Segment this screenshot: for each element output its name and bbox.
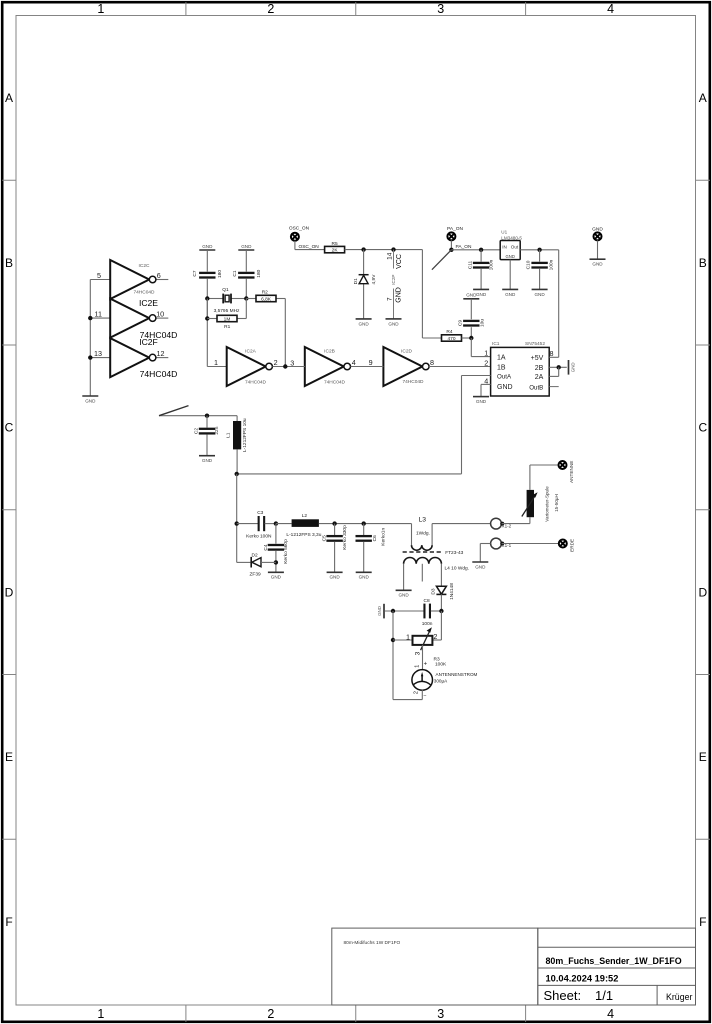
svg-text:3: 3 xyxy=(290,358,294,367)
svg-text:74HC04D: 74HC04D xyxy=(324,380,346,386)
svg-text:80m-Midifuchs 1W DF1FO: 80m-Midifuchs 1W DF1FO xyxy=(344,940,401,946)
svg-text:GND: GND xyxy=(592,262,603,267)
svg-text:1M: 1M xyxy=(224,316,231,322)
svg-text:IC2E: IC2E xyxy=(139,298,158,308)
svg-text:B: B xyxy=(5,256,13,270)
svg-text:OSC_ON: OSC_ON xyxy=(299,244,320,250)
svg-text:GND: GND xyxy=(506,254,515,259)
svg-text:14: 14 xyxy=(387,252,394,260)
svg-text:1N4148: 1N4148 xyxy=(449,583,455,600)
svg-text:VCC: VCC xyxy=(396,254,403,269)
svg-text:C11: C11 xyxy=(468,260,474,269)
svg-text:74HC04D: 74HC04D xyxy=(140,369,178,379)
svg-text:R4: R4 xyxy=(446,329,452,335)
svg-text:1B: 1B xyxy=(497,364,506,371)
svg-text:GND: GND xyxy=(398,593,409,598)
svg-text:GND: GND xyxy=(570,362,575,372)
svg-text:74HC04D: 74HC04D xyxy=(133,289,155,295)
svg-text:IN: IN xyxy=(502,244,507,249)
svg-text:+5V: +5V xyxy=(531,355,544,362)
svg-text:180: 180 xyxy=(217,270,223,278)
svg-text:1Wdg.: 1Wdg. xyxy=(416,531,430,537)
svg-text:L1: L1 xyxy=(226,432,232,438)
svg-text:L-1212FPS 10u: L-1212FPS 10u xyxy=(242,418,248,452)
svg-text:GND: GND xyxy=(534,292,545,297)
svg-text:ZF39: ZF39 xyxy=(249,571,261,577)
svg-text:80m_Fuchs_Sender_1W_DF1FO: 80m_Fuchs_Sender_1W_DF1FO xyxy=(546,956,682,966)
svg-text:470: 470 xyxy=(447,336,455,342)
svg-text:Out: Out xyxy=(511,244,519,249)
svg-text:PA_ON: PA_ON xyxy=(456,244,472,250)
svg-text:L-1212FPS 3,3u: L-1212FPS 3,3u xyxy=(286,532,321,538)
svg-text:GND: GND xyxy=(497,384,513,391)
svg-text:−: − xyxy=(423,693,426,699)
svg-text:GND: GND xyxy=(476,292,487,297)
svg-text:GND: GND xyxy=(388,321,399,326)
svg-text:ERDE: ERDE xyxy=(569,539,574,552)
svg-text:12: 12 xyxy=(157,349,165,358)
svg-text:Krüger: Krüger xyxy=(666,992,692,1002)
svg-text:C1: C1 xyxy=(232,270,238,276)
svg-text:L4 10 Wdg.: L4 10 Wdg. xyxy=(445,566,470,572)
svg-text:C10: C10 xyxy=(526,260,532,269)
svg-text:F: F xyxy=(5,915,12,929)
svg-text:74HC04D: 74HC04D xyxy=(402,379,424,385)
svg-text:2: 2 xyxy=(267,2,274,16)
svg-text:GND: GND xyxy=(358,321,369,326)
svg-text:100K: 100K xyxy=(435,662,447,668)
svg-text:IC2A: IC2A xyxy=(245,348,256,354)
svg-text:2: 2 xyxy=(274,358,278,367)
svg-text:1: 1 xyxy=(484,349,488,358)
svg-text:GND: GND xyxy=(592,227,603,233)
svg-text:10: 10 xyxy=(156,310,164,319)
svg-text:GND: GND xyxy=(505,292,516,297)
svg-text:R1: R1 xyxy=(224,324,230,330)
svg-text:IC1: IC1 xyxy=(492,341,500,347)
svg-text:Kerko 100N: Kerko 100N xyxy=(246,534,272,540)
svg-text:GND: GND xyxy=(85,398,96,403)
svg-text:Sheet:: Sheet: xyxy=(544,988,582,1003)
svg-text:4: 4 xyxy=(352,358,356,367)
svg-text:4: 4 xyxy=(607,1007,614,1021)
svg-text:GND: GND xyxy=(202,244,213,249)
svg-text:100n: 100n xyxy=(422,621,433,627)
svg-text:L2: L2 xyxy=(302,513,308,519)
svg-text:5: 5 xyxy=(97,271,101,280)
svg-text:C8: C8 xyxy=(424,598,430,604)
svg-text:6: 6 xyxy=(157,271,161,280)
svg-text:11: 11 xyxy=(95,310,102,319)
svg-text:D: D xyxy=(698,585,707,599)
svg-text:10.04.2024 19:52: 10.04.2024 19:52 xyxy=(546,973,619,983)
svg-text:IC2F: IC2F xyxy=(139,337,158,347)
svg-text:180: 180 xyxy=(256,269,262,277)
svg-text:+: + xyxy=(424,662,428,668)
svg-text:PA_ON: PA_ON xyxy=(447,226,463,232)
svg-text:7: 7 xyxy=(387,297,394,301)
svg-text:GND: GND xyxy=(359,575,370,580)
svg-text:GND: GND xyxy=(476,399,487,404)
svg-text:Variometer-Spule: Variometer-Spule xyxy=(544,486,549,522)
svg-text:6,8K: 6,8K xyxy=(261,296,272,302)
svg-text:IC2D: IC2D xyxy=(401,349,412,355)
svg-text:1: 1 xyxy=(415,665,421,668)
svg-text:GND: GND xyxy=(475,564,486,569)
svg-text:D2: D2 xyxy=(252,552,258,558)
svg-text:GND: GND xyxy=(241,244,252,249)
svg-text:D: D xyxy=(5,585,14,599)
svg-text:C9: C9 xyxy=(458,320,464,326)
svg-text:9: 9 xyxy=(369,358,373,367)
svg-text:R2: R2 xyxy=(262,290,268,296)
svg-text:E: E xyxy=(5,750,13,764)
svg-text:3: 3 xyxy=(414,651,421,655)
svg-text:D3: D3 xyxy=(430,588,436,594)
svg-text:GND: GND xyxy=(271,575,282,580)
svg-text:C7: C7 xyxy=(192,270,198,276)
svg-text:22n: 22n xyxy=(214,426,220,434)
svg-text:2K: 2K xyxy=(332,247,339,253)
svg-text:1/1: 1/1 xyxy=(595,988,613,1003)
svg-text:A: A xyxy=(699,91,707,105)
svg-text:Q1: Q1 xyxy=(222,287,229,293)
svg-text:3: 3 xyxy=(437,1007,444,1021)
svg-text:Kerko 330p: Kerko 330p xyxy=(342,525,348,550)
svg-text:3: 3 xyxy=(437,2,444,16)
svg-text:Kerko 560p: Kerko 560p xyxy=(283,539,289,564)
svg-text:E: E xyxy=(699,750,707,764)
svg-text:1: 1 xyxy=(97,2,104,16)
svg-text:8: 8 xyxy=(550,349,554,358)
svg-text:C2: C2 xyxy=(194,428,200,434)
svg-text:C5: C5 xyxy=(321,535,327,541)
svg-text:OSC_ON: OSC_ON xyxy=(289,226,310,232)
svg-text:OutA: OutA xyxy=(497,373,512,380)
svg-text:2A: 2A xyxy=(535,374,544,381)
svg-text:15-50µH: 15-50µH xyxy=(554,494,559,512)
svg-text:IC2C: IC2C xyxy=(139,263,150,269)
svg-text:2: 2 xyxy=(433,632,437,641)
svg-text:L3: L3 xyxy=(419,516,427,523)
svg-text:C: C xyxy=(698,421,707,435)
svg-text:1: 1 xyxy=(214,358,218,367)
svg-text:IC2P: IC2P xyxy=(391,274,396,284)
svg-text:100n: 100n xyxy=(548,259,554,270)
svg-text:1A: 1A xyxy=(497,355,506,362)
svg-text:2: 2 xyxy=(414,691,420,694)
svg-text:B: B xyxy=(699,256,707,270)
svg-text:13: 13 xyxy=(94,349,102,358)
svg-text:C: C xyxy=(5,421,14,435)
svg-text:2: 2 xyxy=(267,1007,274,1021)
svg-text:R5: R5 xyxy=(332,241,338,247)
svg-text:ANTENNE: ANTENNE xyxy=(569,461,574,483)
svg-text:U1: U1 xyxy=(501,230,507,235)
svg-text:100n: 100n xyxy=(489,259,495,270)
svg-text:GND: GND xyxy=(377,606,382,616)
svg-text:10u: 10u xyxy=(479,319,485,327)
svg-text:300µA: 300µA xyxy=(434,679,448,684)
svg-text:LM3480-5: LM3480-5 xyxy=(501,235,522,240)
svg-text:X1-2: X1-2 xyxy=(502,524,512,529)
svg-text:2: 2 xyxy=(484,358,488,367)
svg-text:4,9V: 4,9V xyxy=(371,274,377,285)
svg-text:4: 4 xyxy=(607,2,614,16)
svg-text:3,5795 MHz: 3,5795 MHz xyxy=(214,308,240,314)
svg-text:OutB: OutB xyxy=(529,384,543,391)
svg-text:D1: D1 xyxy=(353,278,359,284)
svg-text:8: 8 xyxy=(430,358,434,367)
svg-text:IC2B: IC2B xyxy=(324,348,335,354)
svg-text:C3: C3 xyxy=(257,510,263,516)
svg-text:A: A xyxy=(5,91,13,105)
svg-text:74HC04D: 74HC04D xyxy=(245,380,267,386)
svg-text:2B: 2B xyxy=(535,365,544,372)
svg-text:FT23-43: FT23-43 xyxy=(445,550,463,556)
svg-text:ANTENNENSTROM: ANTENNENSTROM xyxy=(436,672,478,677)
svg-text:GND: GND xyxy=(466,293,477,298)
svg-text:SN75452: SN75452 xyxy=(525,341,545,347)
svg-text:C6: C6 xyxy=(372,535,378,541)
svg-text:C4: C4 xyxy=(263,544,269,550)
svg-text:GND: GND xyxy=(329,575,340,580)
svg-text:Kerko1n: Kerko1n xyxy=(380,528,386,546)
svg-text:1: 1 xyxy=(97,1007,104,1021)
svg-text:GND: GND xyxy=(202,458,213,463)
svg-text:GND: GND xyxy=(396,287,403,303)
svg-text:1: 1 xyxy=(406,632,410,641)
svg-text:F: F xyxy=(699,915,706,929)
